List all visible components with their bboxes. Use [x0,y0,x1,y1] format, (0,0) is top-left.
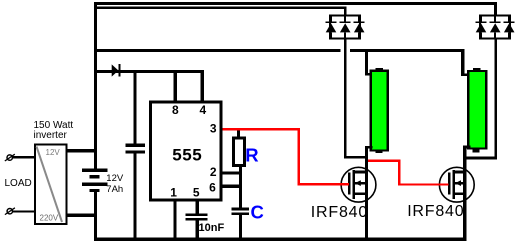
diode D1 [112,64,121,77]
svg-text:LOAD: LOAD [5,178,32,189]
wire drop to lamp L2 top [461,49,469,76]
svg-text:555: 555 [172,145,202,164]
wire left bus upper [94,2,97,169]
diode group DG1 [326,16,365,39]
wire J2 to transformer [13,210,36,212]
wire top rail A [94,2,497,5]
wire rail C left segment [94,49,341,52]
transistor Q2 IRF840 [407,167,474,220]
svg-text:10nF: 10nF [199,222,225,234]
wire top rail B [94,7,347,10]
wire 555 pin 5 down [196,201,199,213]
wire transformer 12V to battery bus [67,149,95,152]
svg-text:1: 1 [170,186,177,200]
wire rail A drop to right diode group [494,2,497,16]
svg-text:3: 3 [210,121,217,135]
svg-text:6: 6 [209,181,216,195]
transformer T1 150 Watt inverter [34,120,74,224]
wire Q1 drain to Q2 gate (red) [368,160,449,186]
wire 555 pin 4 to supply [201,73,204,100]
wire DG1 down to Q1 drain node [344,39,368,159]
resistor R1 [234,130,259,166]
svg-text:IRF840: IRF840 [311,204,368,221]
wire Q2 drain to lamp L2 bottom [463,146,471,149]
diode group DG2 [476,16,515,39]
lamp L1 [371,68,388,153]
svg-text:150 Watt: 150 Watt [34,120,74,131]
capacitor C1 (decoupling) [126,73,146,238]
capacitor C2 10nF [185,213,224,237]
svg-text:8: 8 [172,103,179,117]
wire 555 pin 6 stub [223,185,240,188]
svg-text:5: 5 [193,185,200,199]
wire ground rail [94,238,466,241]
battery BT1 12V 7Ah [82,169,124,196]
wire left bus lower [94,192,97,241]
svg-text:R: R [245,144,258,165]
svg-text:IRF840: IRF840 [407,203,464,220]
wire 555 pin 8 to supply [174,73,177,100]
svg-text:C: C [251,201,264,222]
wire drop to lamp L1 top [365,49,372,76]
wire Q2 drain-source vertical [463,146,466,239]
wire Q1 drain to lamp L1 bottom [365,146,373,149]
wire 555 pin 1 to ground [173,201,176,237]
wire rail B drop to left diode group [344,7,347,16]
svg-text:4: 4 [199,103,206,117]
svg-text:220V: 220V [40,214,59,223]
wire DG2 down to Q2 drain node [464,39,497,160]
terminal J2 [5,208,15,215]
svg-text:inverter: inverter [34,130,68,141]
capacitor C3 [232,201,264,237]
op IC U1 555 [151,102,222,200]
wire transformer 220V to ground bus [67,214,95,217]
wire J1 to transformer [13,156,36,158]
wire rail C right segment [350,49,465,52]
wire 555 pin 2 stub [223,172,240,175]
transistor Q1 IRF840 [311,167,376,221]
svg-text:7Ah: 7Ah [106,184,123,195]
wire 555 pin3 output (red) [223,128,349,185]
terminal J1 [5,154,15,161]
svg-text:2: 2 [210,165,217,179]
svg-text:12V: 12V [46,148,61,157]
lamp L2 [468,68,486,153]
svg-text:12V: 12V [106,173,124,184]
wire Q1 drain-source vertical [365,146,368,238]
wire supply rail with diode D1 [97,70,204,73]
wire R1 bottom to pins 2/6 and C3 [239,167,242,208]
